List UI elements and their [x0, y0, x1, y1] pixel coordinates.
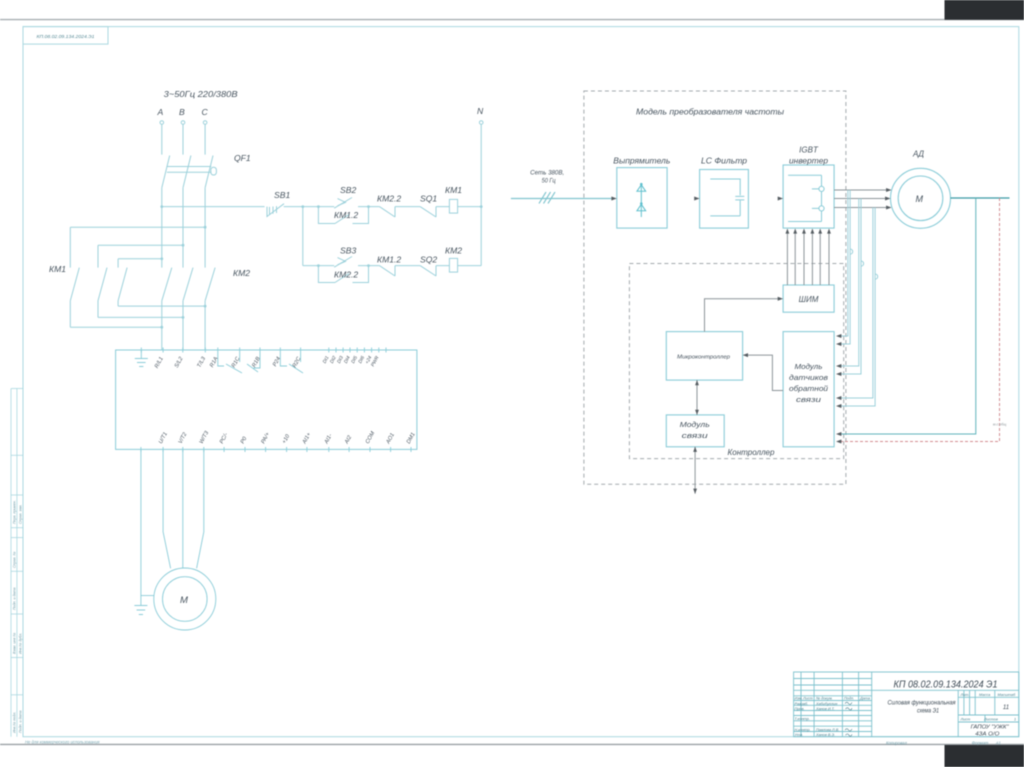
- svg-text:Подп. и дата: Подп. и дата: [19, 711, 23, 734]
- svg-text:Ханов В.Э.: Ханов В.Э.: [815, 733, 835, 737]
- svg-text:IGBT: IGBT: [799, 146, 819, 155]
- svg-text:SB1: SB1: [274, 190, 290, 200]
- svg-text:Подп.: Подп.: [844, 697, 854, 701]
- svg-text:АД: АД: [912, 150, 924, 159]
- svg-text:Контроллер: Контроллер: [728, 447, 775, 457]
- svg-text:Изм.: Изм.: [795, 697, 803, 701]
- svg-text:Т.контр.: Т.контр.: [795, 717, 810, 721]
- svg-text:QF1: QF1: [234, 153, 251, 163]
- svg-text:схема Э1: схема Э1: [917, 708, 939, 715]
- svg-text:Справ. №: Справ. №: [13, 552, 17, 568]
- svg-text:Хабибуллин: Хабибуллин: [815, 702, 838, 706]
- svg-text:11: 11: [1003, 705, 1009, 711]
- svg-text:КМ1.2: КМ1.2: [377, 255, 401, 265]
- svg-text:4ЗА О/О: 4ЗА О/О: [975, 732, 1000, 738]
- svg-text:Масштаб: Масштаб: [998, 693, 1017, 697]
- svg-text:КМ1: КМ1: [49, 264, 66, 274]
- svg-text:Справ. зам.: Справ. зам.: [19, 504, 23, 524]
- svg-text:Разраб.: Разраб.: [795, 702, 809, 706]
- svg-text:датчиков: датчиков: [789, 374, 828, 382]
- svg-text:Ханов И.Т.: Ханов И.Т.: [815, 707, 835, 711]
- svg-text:N: N: [477, 106, 484, 116]
- svg-text:ШИМ: ШИМ: [799, 295, 819, 304]
- svg-text:Масса: Масса: [979, 693, 990, 697]
- svg-text:Н.контр.: Н.контр.: [795, 728, 811, 732]
- svg-text:SQ1: SQ1: [420, 194, 437, 204]
- svg-text:Микроконтроллер: Микроконтроллер: [677, 355, 730, 361]
- svg-text:№ докум.: № докум.: [816, 697, 833, 701]
- svg-text:Копировал: Копировал: [886, 741, 907, 746]
- svg-text:Утв.: Утв.: [795, 733, 804, 737]
- svg-text:связи: связи: [682, 431, 708, 440]
- svg-text:КП 08.02.09.134.2024 Э1: КП 08.02.09.134.2024 Э1: [894, 680, 998, 691]
- svg-text:Лист: Лист: [960, 717, 971, 721]
- svg-text:ГАПОУ "УЖК": ГАПОУ "УЖК": [971, 725, 1010, 731]
- svg-text:КМ2: КМ2: [233, 268, 250, 278]
- svg-text:Лит.: Лит.: [960, 693, 970, 697]
- svg-text:B: B: [179, 107, 185, 117]
- svg-text:SB2: SB2: [340, 185, 356, 195]
- svg-text:A: A: [157, 107, 164, 117]
- svg-text:Инв.№ подл.: Инв.№ подл.: [13, 712, 17, 733]
- svg-text:Дата: Дата: [859, 697, 870, 701]
- svg-text:Лист: Лист: [802, 697, 813, 701]
- svg-text:инвертер: инвертер: [789, 157, 829, 166]
- svg-text:Выпрямитель: Выпрямитель: [613, 157, 670, 166]
- svg-text:Модуль: Модуль: [680, 420, 710, 429]
- svg-text:А1: А1: [995, 741, 1001, 746]
- svg-text:SB3: SB3: [340, 246, 356, 256]
- svg-text:КМ1.2: КМ1.2: [334, 210, 358, 220]
- svg-text:1: 1: [1014, 717, 1016, 721]
- svg-text:м.с.общ: м.с.общ: [993, 423, 1006, 427]
- svg-text:М: М: [180, 595, 188, 606]
- svg-text:Инв.№ дубл.: Инв.№ дубл.: [19, 633, 23, 654]
- svg-text:LC Фильтр: LC Фильтр: [701, 157, 748, 166]
- svg-text:Подп. и дата: Подп. и дата: [13, 588, 17, 611]
- svg-text:М: М: [916, 194, 924, 204]
- svg-text:Перв. примен.: Перв. примен.: [13, 500, 17, 524]
- svg-text:Взам. инв №: Взам. инв №: [13, 633, 17, 654]
- svg-text:связи: связи: [796, 397, 821, 404]
- svg-text:Модуль: Модуль: [795, 363, 823, 371]
- svg-text:Листов: Листов: [983, 717, 998, 721]
- svg-text:Сеть 380В,: Сеть 380В,: [530, 171, 564, 177]
- svg-text:Пров.: Пров.: [795, 707, 805, 711]
- svg-text:C: C: [202, 107, 209, 117]
- svg-text:Силовая функциональная: Силовая функциональная: [888, 700, 956, 707]
- svg-text:Павлова Л.В.: Павлова Л.В.: [816, 728, 839, 732]
- svg-text:50 Гц: 50 Гц: [542, 179, 557, 185]
- svg-text:3~50Гц 220/380В: 3~50Гц 220/380В: [164, 89, 238, 99]
- svg-text:Не для коммерческого использов: Не для коммерческого использования: [25, 740, 100, 745]
- svg-text:КМ2.2: КМ2.2: [334, 270, 358, 280]
- svg-text:Формат: Формат: [972, 741, 989, 746]
- svg-text:КП.08.02.09.134.2024.Э1: КП.08.02.09.134.2024.Э1: [37, 34, 95, 39]
- svg-text:КМ1: КМ1: [445, 185, 462, 195]
- svg-text:SQ2: SQ2: [420, 255, 437, 265]
- svg-text:Модель преобразователя частоты: Модель преобразователя частоты: [636, 108, 784, 117]
- svg-text:обратной: обратной: [789, 385, 828, 393]
- svg-text:КМ2.2: КМ2.2: [377, 194, 401, 204]
- svg-text:КМ2: КМ2: [445, 246, 462, 256]
